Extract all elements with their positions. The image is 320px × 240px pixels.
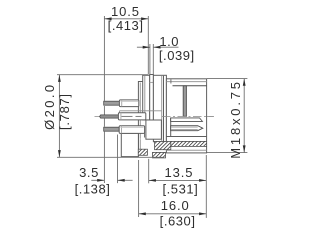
dimension D20.0 line with arrows — [58, 75, 61, 158]
sleeve pin 1 — [119, 100, 138, 107]
solder lead pin 3 — [104, 127, 120, 131]
hidden sleeve edge behind (upper) — [120, 111, 162, 113]
svg-text:16.0: 16.0 — [161, 198, 190, 213]
dimension D20.0 extension lines — [57, 75, 164, 158]
dimension 1.0 extension lines — [150, 44, 153, 75]
centerline axis overlay in bore — [162, 115, 214, 117]
washer behind flange — [143, 75, 150, 120]
solder lead pin 1 — [104, 101, 120, 105]
section hatch: flange foot right — [153, 152, 166, 158]
male pin A — [171, 118, 203, 122]
dimension 10.5 extension line right — [147, 16, 149, 74]
section hatch: flange foot left — [138, 149, 147, 155]
svg-text:[.787]: [.787] — [57, 93, 72, 130]
contact pin at top position (section plane) — [183, 86, 186, 117]
dimension 13.5 extension lines — [149, 155, 207, 218]
rear insulator body — [138, 82, 149, 150]
svg-text:10.5: 10.5 — [111, 4, 140, 19]
sleeve pin 3 — [119, 126, 144, 138]
dimension 16.0 extension line — [138, 160, 140, 217]
bore inner edges — [171, 79, 207, 86]
dimension 10.5 extension line left — [103, 16, 105, 183]
svg-text:[.138]: [.138] — [75, 181, 111, 196]
sleeve pin 2 — [118, 113, 145, 120]
dimension 10.5 line with arrows — [104, 17, 148, 20]
insert face — [170, 118, 172, 137]
svg-text:[.039]: [.039] — [159, 48, 195, 63]
dimension 3.5 extension line — [117, 135, 119, 184]
svg-text:13.5: 13.5 — [164, 165, 193, 180]
svg-text:[.531]: [.531] — [162, 182, 198, 197]
threaded barrel M18 — [166, 79, 206, 153]
dimension M18x0.75 extension lines — [207, 79, 247, 153]
insert shoulder — [166, 136, 206, 138]
section hatch: barrel wall band left — [155, 142, 171, 150]
svg-text:1.0: 1.0 — [159, 34, 179, 49]
svg-text:3.5: 3.5 — [79, 165, 99, 180]
centerline axis — [95, 115, 215, 117]
rear body lower-left section block — [121, 133, 138, 156]
svg-text:[.413]: [.413] — [108, 18, 144, 33]
dimension 13.5 line with arrows — [149, 179, 207, 182]
svg-text:[.630]: [.630] — [160, 214, 196, 229]
flange disk 1.0mm — [150, 75, 154, 121]
dimension 16.0 line with arrows — [139, 212, 207, 215]
solder lead pin 2 (on axis) — [100, 115, 119, 118]
section window box below mid sleeve — [146, 120, 162, 139]
dimension 1.0 arrows and leader — [137, 46, 179, 49]
svg-text:Ø20.0: Ø20.0 — [42, 82, 57, 129]
section hatch: barrel wall band right — [171, 141, 207, 146]
neck ring — [153, 75, 166, 141]
dimension M18x0.75 line with arrows — [243, 79, 246, 153]
male pin B — [171, 126, 203, 131]
dimension 3.5 arrows — [91, 179, 132, 182]
svg-text:M18x0.75: M18x0.75 — [228, 79, 243, 159]
